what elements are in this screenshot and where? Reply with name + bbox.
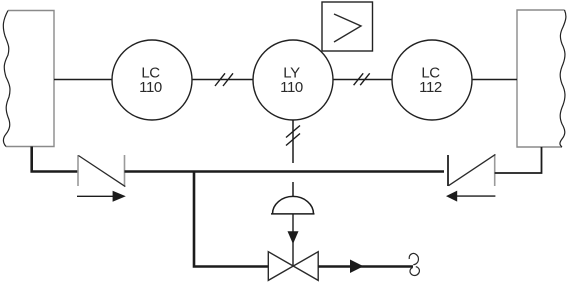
check valve CV1 right plate: [124, 155, 126, 186]
vessel V2 wavy break edge: [560, 10, 566, 147]
vessel V1 (left, straight edges): [6, 11, 54, 147]
actuator stem: [292, 214, 294, 266]
pipe from check valve CV2 to vessel V2: [495, 147, 542, 173]
check valve CV1 left plate: [77, 155, 79, 186]
svg-text:112: 112: [419, 79, 442, 96]
check valve CV1 flapper diagonal: [78, 156, 125, 187]
vessel V1 wavy break edge: [3, 11, 10, 147]
signal line LC112 to vessel V2: [472, 79, 517, 81]
flow arrow A1 (rightward): [77, 191, 126, 202]
pipe from vessel V1 down: [32, 147, 78, 172]
signal line vessel V1 to LC110: [54, 79, 112, 81]
check valve CV2 right plate: [494, 155, 496, 186]
flow arrow A2 (leftward): [446, 191, 495, 202]
controller LC110: [112, 40, 192, 120]
slash marks S1 on LC110-LY110 line: [215, 73, 233, 86]
signal line LY110 to LC112: [333, 79, 392, 81]
slash marks S2 on LY110-LC112 line: [354, 73, 370, 85]
control valve body (bowtie): [268, 252, 318, 281]
controller LC112: [392, 40, 472, 120]
actuator arrow (down): [288, 231, 299, 244]
pipe drop to control valve: [194, 172, 268, 267]
slash marks S3 on LY110 down line: [286, 126, 300, 146]
check valve CV2 flapper diagonal: [449, 154, 496, 185]
high-select symbol >: [334, 14, 361, 42]
outlet pipe from control valve: [318, 265, 413, 268]
vessel V2 (right, straight edges): [517, 10, 565, 147]
signal line LY110 down (lower segment): [292, 182, 294, 197]
check valve CV2 left plate: [447, 155, 449, 186]
signal line LY110 down (upper segment): [292, 120, 294, 163]
relay LY110: [253, 40, 333, 120]
high-select box U1: [322, 2, 373, 51]
main pipe header: [125, 170, 445, 173]
signal line LC110 to LY110: [192, 79, 253, 81]
pipe break squiggle: [409, 253, 419, 275]
svg-text:110: 110: [280, 79, 303, 96]
svg-text:110: 110: [139, 79, 162, 96]
flow arrow A3 (rightward): [350, 260, 364, 274]
actuator dome of LV110: [271, 196, 315, 214]
